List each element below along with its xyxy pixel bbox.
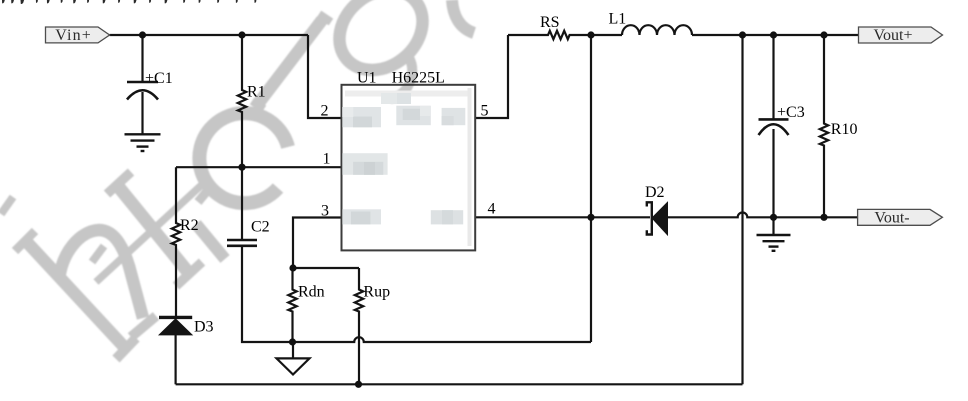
svg-text:Rdn: Rdn [298,284,325,301]
wire: ground stem below C3 [772,217,774,235]
junction at pin 4 / D2 anode [587,214,594,221]
wire: right riser x=742.5 from bottom rail to top rail [741,35,743,384]
junction at pin 3 / Rdn top [289,264,296,271]
wire: C2 bottom lead and ground rail to x=591 with hop over Rup [242,246,591,343]
wire: C1 top lead [141,35,143,82]
svg-text:C2: C2 [251,219,270,236]
wire: pin 1 row [176,166,342,168]
svg-text:Rup: Rup [363,284,390,301]
capacitor C1 positive plate [127,81,158,84]
diode D2 cathode bar with schottky hooks [647,202,652,234]
wire: C2 vertical top lead [241,167,243,240]
diode D3 triangle [159,319,192,335]
capacitor C2 bottom plate [227,245,257,248]
svg-text:RS: RS [540,14,560,31]
junction at C3 top [770,31,777,38]
diode D3 cathode bar [159,316,192,319]
junction at R10 top [820,31,827,38]
junction at Rup bottom [355,381,362,388]
svg-text:Vout+: Vout+ [874,27,913,44]
junction at RS output [587,31,594,38]
wire: D3 bottom lead to bottom rail [175,335,177,384]
svg-text:U1: U1 [357,69,377,86]
ground under C1 [125,134,161,151]
resistor R10 [820,35,828,217]
svg-text:2: 2 [321,102,329,119]
svg-text:D2: D2 [645,184,665,201]
svg-text:R1: R1 [247,83,266,100]
resistor Rdn [288,268,296,342]
svg-text:R10: R10 [831,121,858,138]
wire: pin 4 row to D2 [475,216,650,218]
terminal flag Vin+ [46,27,110,43]
svg-text:5: 5 [481,102,489,119]
IC inner light strips [345,91,470,97]
wire: pin 5 to corner up to top rail [475,35,508,118]
capacitor C3 positive plate [759,118,789,121]
resistor RS (in top rail) [508,31,622,39]
junction at R10 bottom [820,214,827,221]
resistor R2 [172,167,180,316]
terminal flag Vout+ [859,27,943,43]
IC U1 box [342,85,476,251]
ground triangle (signal ground) [277,358,310,374]
wire: top rail from Vin+ to corner [110,34,308,36]
wire: x=591 vertical from top rail to ground rail [590,35,592,342]
svg-text:3: 3 [321,203,329,220]
capacitor C2 top plate [227,239,257,242]
svg-text:Vout-: Vout- [874,209,909,226]
terminal flag Vout- [858,209,943,225]
cropped text descender marks along top edge [2,0,256,4]
wire: Rdn top rail to Rup [293,267,359,269]
svg-text:Vin+: Vin+ [55,27,91,44]
wire: C1 bottom lead to ground [141,92,143,134]
diode D2 triangle [652,202,668,235]
junction at Vout+ riser [739,31,746,38]
wire: L1 to Vout+ flag [692,34,859,36]
capacitor C3 curved plate [759,124,789,135]
inductor L1 [622,25,692,35]
wire: C3 bottom lead [772,129,774,217]
wire: C3 top lead [772,35,774,119]
junction at R1 bottom / C2 top (pin 1 node) [238,164,245,171]
wire: D2 to Vout- flag with hop over riser [668,213,858,218]
wire: ground stem below Rdn [292,342,294,358]
svg-text:D3: D3 [194,319,214,336]
junction at Rdn bottom / ground [289,338,296,345]
wire: bottom rail [176,383,743,385]
redacted mosaic blocks inside IC [342,93,465,224]
svg-text:R2: R2 [180,217,199,234]
svg-text:H6225L: H6225L [392,69,445,86]
junction at C1 top [139,31,146,38]
wire: pin 3 row and stem down [293,218,342,269]
resistor R1 [238,35,246,167]
svg-text:4: 4 [488,201,496,218]
svg-text:1: 1 [323,151,331,168]
junction at R1 top [238,31,245,38]
junction at C3 bottom / ground [770,214,777,221]
ground under C3 [757,235,791,251]
svg-text:+C1: +C1 [145,70,173,87]
wire: corner down to pin 2 [308,35,342,118]
resistor Rup [355,268,363,384]
capacitor C1 curved plate [127,90,158,99]
svg-text:L1: L1 [609,11,627,28]
svg-text:+C3: +C3 [777,104,805,121]
